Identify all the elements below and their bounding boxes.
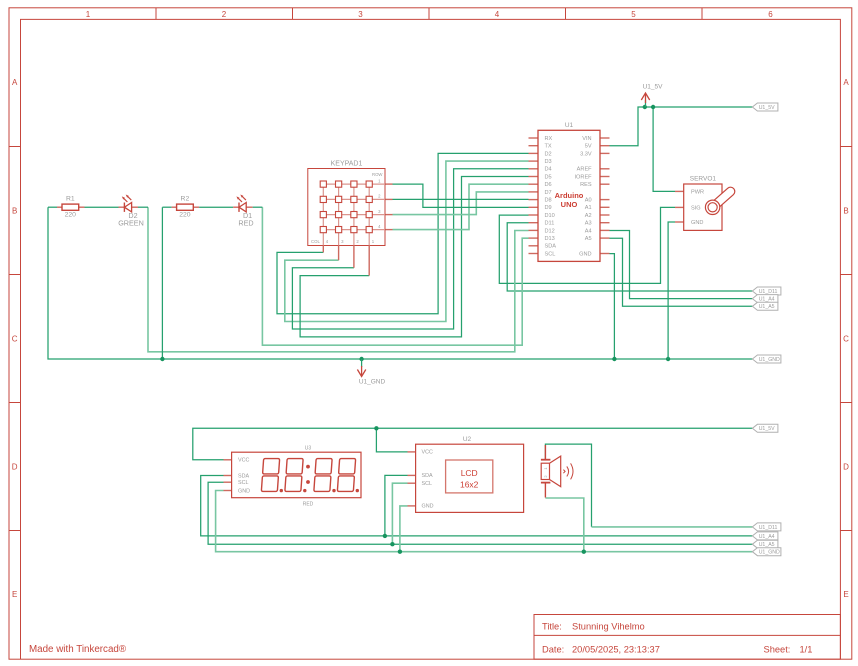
svg-text:Stunning Vihelmo: Stunning Vihelmo xyxy=(572,621,645,631)
svg-text:E: E xyxy=(12,590,17,599)
wire net ground rail xyxy=(48,207,752,359)
junction ground/U1_GND arrow xyxy=(359,357,363,361)
svg-text:16x2: 16x2 xyxy=(460,480,479,490)
svg-text:TX: TX xyxy=(545,144,552,150)
svg-text:Title:: Title: xyxy=(542,621,562,631)
wire net D5 to KEYPAD1 col1 xyxy=(300,177,528,337)
junction SCL line/U2 SCL xyxy=(390,542,394,546)
svg-text:U1_D11: U1_D11 xyxy=(759,289,778,295)
wire net D10 to SERVO1 SIG xyxy=(499,207,675,283)
net label U1_A5 (upper) xyxy=(752,302,778,310)
svg-text:COL: COL xyxy=(311,239,320,244)
wire branch: 5V to SERVO1 PWR xyxy=(653,107,675,191)
wire branch: R2 loop to ground rail xyxy=(161,207,163,359)
resistor R2 xyxy=(172,196,200,219)
svg-text:U1_D11: U1_D11 xyxy=(759,525,778,531)
svg-text:SDA: SDA xyxy=(545,244,557,250)
svg-text:R1: R1 xyxy=(66,196,75,203)
svg-text:A: A xyxy=(12,78,18,87)
Arduino Uno U1 xyxy=(529,122,610,261)
svg-text:4: 4 xyxy=(495,10,500,19)
svg-text:RES: RES xyxy=(580,182,592,188)
svg-text:IOREF: IOREF xyxy=(575,174,593,180)
svg-text:RED: RED xyxy=(303,501,314,507)
svg-text:6: 6 xyxy=(768,10,773,19)
svg-text:SIG: SIG xyxy=(691,205,701,211)
net label U1_GND (upper) xyxy=(752,355,781,363)
svg-text:D12: D12 xyxy=(545,228,555,234)
Made with Tinkercad branding xyxy=(29,644,127,655)
svg-text:U1_5V: U1_5V xyxy=(759,426,775,432)
wire branch: 5V rail to U2 VCC xyxy=(376,428,407,452)
svg-text:3.3V: 3.3V xyxy=(580,151,592,157)
wire net 5V: U1 5V pin to U1_5V flag xyxy=(610,107,753,146)
svg-text:C: C xyxy=(12,335,18,344)
svg-text:U1_GND: U1_GND xyxy=(359,379,386,386)
svg-text:U2: U2 xyxy=(463,436,472,443)
svg-text:D10: D10 xyxy=(545,213,555,219)
svg-text:PWR: PWR xyxy=(691,189,704,195)
resistor R1 xyxy=(57,196,85,219)
svg-text:VCC: VCC xyxy=(238,458,249,464)
svg-text:D8: D8 xyxy=(545,198,552,204)
svg-text:SCL: SCL xyxy=(238,480,249,486)
svg-text:U1_GND: U1_GND xyxy=(759,550,780,556)
junction ground/U1 GND wire xyxy=(612,357,616,361)
svg-text:U1_A5: U1_A5 xyxy=(759,304,775,310)
net label U1_A4 (upper) xyxy=(752,295,778,303)
svg-text:Date:: Date: xyxy=(542,645,564,655)
wire branch: U2 GND xyxy=(400,506,408,552)
wire net 5V lower rail to U1_5V flag xyxy=(193,428,753,460)
junction lower ground/speaker xyxy=(582,550,586,554)
junction lower ground/U2 GND xyxy=(398,550,402,554)
svg-text:A2: A2 xyxy=(585,213,592,219)
svg-text:GND: GND xyxy=(691,220,703,226)
svg-text:1/1: 1/1 xyxy=(800,645,813,655)
wire net SCL: U3 SCL to U1_A5 flag xyxy=(208,482,752,544)
svg-text:220: 220 xyxy=(65,212,77,219)
wire net GND: U1 GND pin to ground rail xyxy=(610,254,615,359)
svg-text:D6: D6 xyxy=(545,182,552,188)
net label U1_GND (lower) xyxy=(752,548,781,556)
LED D2 (GREEN) xyxy=(118,195,144,228)
junction ground/R2 loop xyxy=(160,357,164,361)
wire net D4 to KEYPAD1 col2 xyxy=(292,169,528,329)
svg-text:SCL: SCL xyxy=(545,251,556,257)
svg-text:D9: D9 xyxy=(545,205,552,211)
junction ground/servo GND wire xyxy=(666,357,670,361)
junction 5V/arrow xyxy=(643,105,647,109)
svg-text:5: 5 xyxy=(631,10,636,19)
svg-text:Made with Tinkercad®: Made with Tinkercad® xyxy=(29,644,127,655)
svg-text:GND: GND xyxy=(579,251,591,257)
wire net D7 to KEYPAD1 row3 xyxy=(393,192,529,215)
junction 5V/servo xyxy=(651,105,655,109)
net label U1_D11 (upper) xyxy=(752,287,781,295)
wire net D8 to KEYPAD1 row2 xyxy=(393,198,529,200)
svg-text:D4: D4 xyxy=(545,167,552,173)
svg-text:AREF: AREF xyxy=(577,167,593,173)
wire net speaker positive to U1_D11 flag xyxy=(545,444,752,527)
svg-text:A4: A4 xyxy=(585,228,592,234)
piezo speaker xyxy=(541,445,573,498)
svg-text:RED: RED xyxy=(238,219,253,228)
svg-text:A0: A0 xyxy=(585,198,592,204)
svg-text:A: A xyxy=(843,78,849,87)
svg-text:U1_GND: U1_GND xyxy=(759,357,780,363)
svg-text:SDA: SDA xyxy=(238,473,249,479)
net label U1_5V (top) xyxy=(752,103,778,111)
svg-text:A3: A3 xyxy=(585,221,592,227)
svg-text:Sheet:: Sheet: xyxy=(764,645,791,655)
svg-text:RX: RX xyxy=(545,136,553,142)
wire net D9 to KEYPAD1 row1 xyxy=(393,184,529,207)
svg-text:U1_A4: U1_A4 xyxy=(759,534,775,540)
wire net D2 to KEYPAD1 col4 xyxy=(277,153,529,313)
svg-text:D13: D13 xyxy=(545,236,555,242)
svg-text:Arduino: Arduino xyxy=(555,191,584,200)
svg-text:U3: U3 xyxy=(305,446,312,452)
svg-text:LCD: LCD xyxy=(461,468,478,478)
wire net D3 to KEYPAD1 col3 xyxy=(285,161,529,321)
svg-text:D5: D5 xyxy=(545,174,552,180)
svg-text:UNO: UNO xyxy=(561,200,578,209)
svg-text:D7: D7 xyxy=(545,190,552,196)
svg-text:U1_A4: U1_A4 xyxy=(759,297,775,303)
svg-text:D3: D3 xyxy=(545,159,552,165)
svg-text:ROW: ROW xyxy=(372,172,383,177)
svg-text:VCC: VCC xyxy=(422,450,433,456)
wire net lower ground: U3 GND to U1_GND flag xyxy=(216,491,753,552)
title block xyxy=(534,615,840,660)
svg-text:C: C xyxy=(843,335,849,344)
wire branch: SERVO1 GND to ground rail xyxy=(668,222,675,359)
svg-text:D: D xyxy=(12,463,18,472)
net label U1_A5 (lower) xyxy=(752,540,778,548)
svg-text:A5: A5 xyxy=(585,236,592,242)
svg-text:2: 2 xyxy=(222,10,227,19)
svg-text:U1_5V: U1_5V xyxy=(643,84,664,91)
wire branch: U2 SDA xyxy=(385,475,408,536)
svg-text:KEYPAD1: KEYPAD1 xyxy=(331,160,363,167)
wire net D6 to KEYPAD1 row4 xyxy=(393,184,529,229)
wire net A5: U1 A5 pin to U1_A5 flag xyxy=(610,238,753,306)
svg-text:GND: GND xyxy=(238,488,250,494)
power flag U1_5V (arrow up) xyxy=(641,84,663,108)
svg-text:5V: 5V xyxy=(585,144,592,150)
wire net A4: U1 A4 pin to U1_A4 flag xyxy=(610,231,753,299)
net label U1_A4 (lower) xyxy=(752,532,778,540)
svg-text:E: E xyxy=(843,590,848,599)
svg-text:D2: D2 xyxy=(545,151,552,157)
keypad KEYPAD1 xyxy=(308,160,393,275)
net label U1_D11 (lower) xyxy=(752,523,781,531)
wire segment: R2 row xyxy=(162,206,262,208)
svg-text:220: 220 xyxy=(179,212,191,219)
svg-text:20/05/2025, 23:13:37: 20/05/2025, 23:13:37 xyxy=(572,645,660,655)
svg-text:A1: A1 xyxy=(585,205,592,211)
LED D1 (RED) xyxy=(233,195,253,228)
wire branch: speaker negative to lower ground xyxy=(545,498,583,552)
svg-text:U1_5V: U1_5V xyxy=(759,105,775,111)
wire net SDA: U3 SDA to U1_A4 flag xyxy=(201,476,753,536)
wire net D12 to LED D2 cathode xyxy=(148,207,529,352)
svg-text:D: D xyxy=(843,463,849,472)
svg-text:GND: GND xyxy=(422,504,434,510)
net label U1_5V (lower) xyxy=(752,424,778,432)
junction SDA line/U2 SDA xyxy=(383,534,387,538)
svg-text:VIN: VIN xyxy=(582,136,591,142)
wire segment: R1 row xyxy=(48,206,148,208)
svg-text:SERVO1: SERVO1 xyxy=(690,176,717,183)
svg-text:R2: R2 xyxy=(181,196,190,203)
wire net D11 to U1_D11 flag xyxy=(507,223,752,291)
ground flag U1_GND (arrow down) xyxy=(357,359,385,386)
svg-text:1: 1 xyxy=(86,10,91,19)
svg-text:B: B xyxy=(843,207,848,216)
svg-text:B: B xyxy=(12,207,17,216)
junction 5V rail/U2 VCC xyxy=(374,426,378,430)
LCD display U2 xyxy=(408,436,524,512)
svg-text:SDA: SDA xyxy=(422,473,433,479)
svg-text:3: 3 xyxy=(358,10,363,19)
svg-text:GREEN: GREEN xyxy=(118,219,144,228)
svg-text:U1: U1 xyxy=(565,122,574,129)
svg-text:U1_A5: U1_A5 xyxy=(759,542,775,548)
svg-text:D11: D11 xyxy=(545,221,555,227)
servo motor SERVO1 xyxy=(675,176,731,231)
7-segment display U3 xyxy=(224,446,362,508)
wire net D13 to LED D1 cathode xyxy=(262,207,528,345)
wire branch: U2 SCL xyxy=(392,483,407,544)
svg-text:SCL: SCL xyxy=(422,481,433,487)
